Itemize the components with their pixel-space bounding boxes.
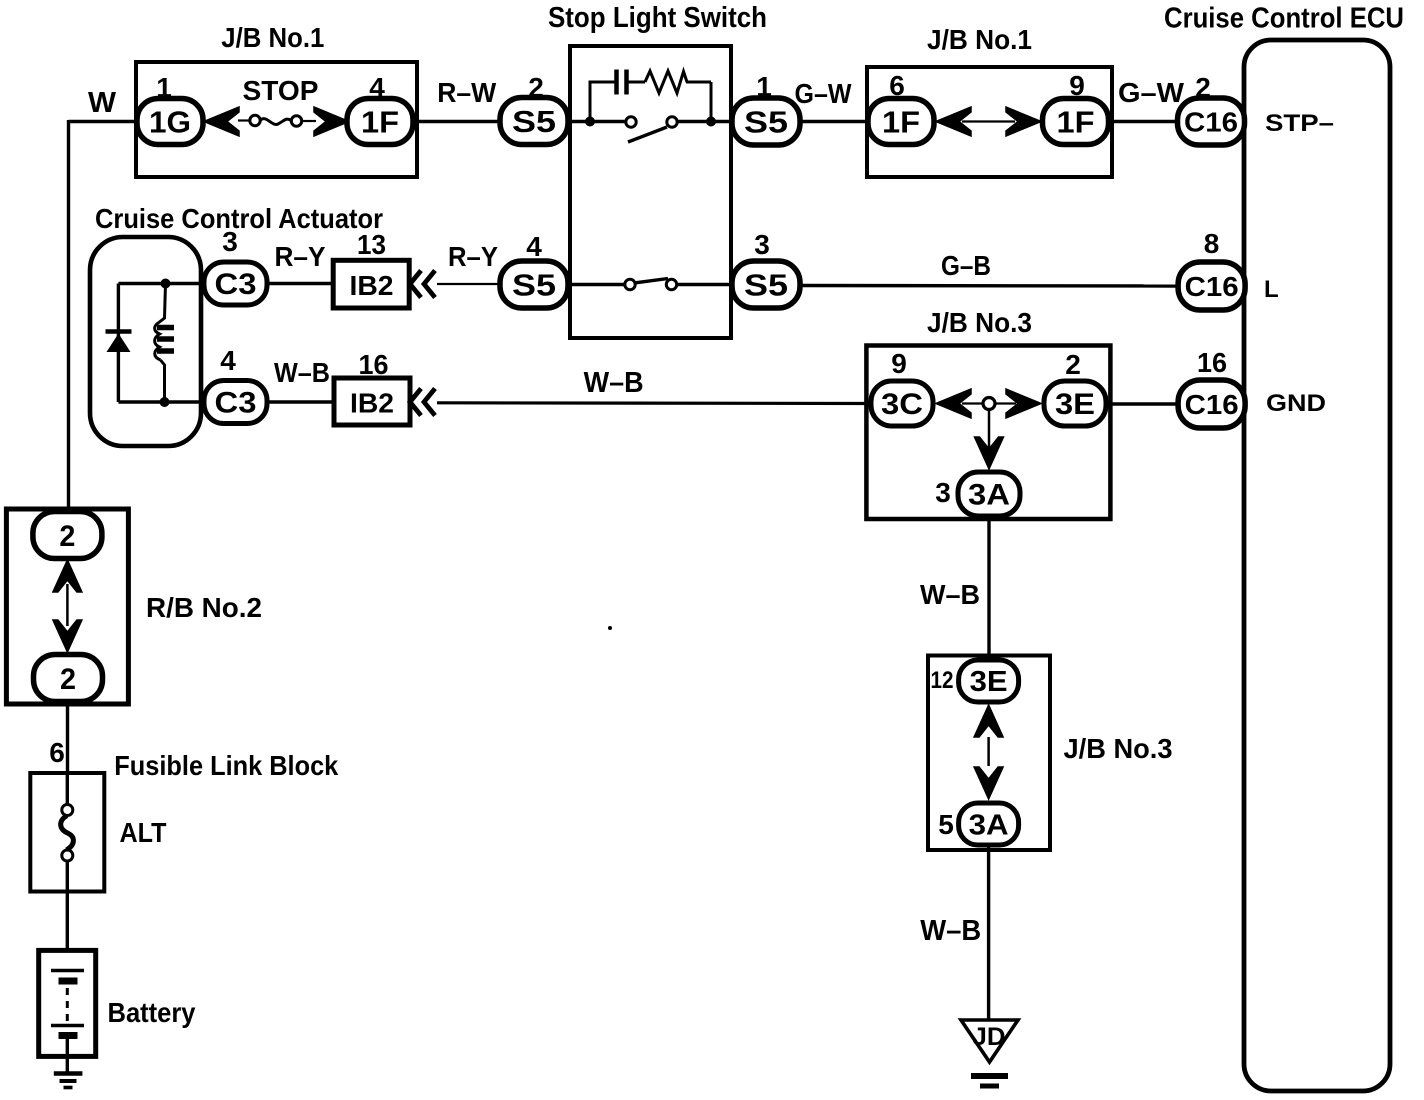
connector C16 pin2 (1178, 98, 1245, 145)
wire W-B long (437, 401, 870, 405)
svg-text:GND: GND (1266, 390, 1326, 417)
fuse element terminal right (291, 116, 301, 126)
connector 3E (1044, 381, 1106, 426)
link line from node (995, 402, 1016, 404)
fusible link lead bottom (66, 861, 69, 952)
svg-text:R/B No.2: R/B No.2 (146, 592, 262, 623)
connector 1G (137, 99, 203, 145)
fusible link terminal top (62, 805, 73, 816)
connector 1F (347, 99, 413, 145)
svg-text:J/B No.3: J/B No.3 (927, 307, 1032, 338)
svg-text:W: W (88, 87, 117, 119)
RC branch riser left (590, 82, 615, 122)
link line between arrows (962, 120, 1015, 122)
junction connector IB2 pin13 (333, 260, 409, 308)
ground point JD triangle (961, 1020, 1018, 1062)
fusible link element (61, 816, 74, 851)
connector 2 upper (33, 512, 102, 559)
svg-text:C16: C16 (1185, 389, 1239, 420)
wire G-W right (1108, 120, 1180, 123)
junction node right (706, 117, 716, 127)
capacitor plate left (614, 70, 619, 95)
svg-text:3E: 3E (1055, 388, 1095, 421)
svg-text:W–B: W–B (274, 357, 330, 388)
svg-text:2: 2 (60, 663, 76, 696)
ECU body (Cruise Control ECU) (1244, 40, 1390, 1091)
switch 1 contact left (626, 117, 636, 127)
svg-text:C3: C3 (215, 387, 257, 420)
svg-text:1F: 1F (361, 105, 399, 140)
arrow into 1F (314, 107, 349, 136)
svg-text:4: 4 (220, 345, 236, 376)
svg-text:3: 3 (222, 226, 238, 257)
svg-text:W–B: W–B (920, 579, 980, 610)
fuse element terminal left (250, 115, 260, 125)
junction connector IB2 pin16 (334, 378, 410, 425)
wire R-Y thin (437, 283, 503, 285)
RC branch top right (686, 81, 711, 84)
svg-text:C3: C3 (215, 268, 257, 301)
capacitor lead (629, 81, 646, 84)
svg-text:L: L (1264, 276, 1279, 303)
switch 2 blade (634, 279, 668, 284)
capacitor plate right (624, 70, 629, 95)
svg-text:JD: JD (973, 1023, 1006, 1051)
connector 1F pin9 (1043, 99, 1109, 145)
fusible link lead top (66, 775, 69, 805)
connector C3 pin4 (204, 381, 267, 424)
wire to fusible link (66, 702, 69, 774)
branch line down from node (988, 410, 991, 453)
svg-text:R–Y: R–Y (275, 241, 326, 272)
connector S5 pin1 (732, 98, 800, 145)
arrow toward 1F pin6 (936, 107, 971, 136)
actuator left branch (117, 284, 120, 403)
resistor zigzag (645, 71, 687, 93)
wire W-B short (267, 400, 334, 403)
wire G-B (800, 284, 1180, 288)
fuse element lead left (238, 119, 250, 121)
wire S5 to J/B No.1 (800, 120, 870, 123)
svg-text:Stop Light Switch: Stop Light Switch (548, 2, 767, 34)
svg-text:4: 4 (526, 231, 542, 262)
switch 2 contact right (666, 279, 676, 289)
fusible link block box (30, 773, 104, 892)
svg-text:1F: 1F (882, 105, 920, 140)
svg-text:3: 3 (935, 477, 951, 508)
RC branch riser right (710, 82, 713, 122)
svg-text:IB2: IB2 (350, 270, 394, 301)
actuator junction bottom (160, 397, 170, 407)
Cruise Control Actuator body (90, 237, 201, 446)
svg-text:G–W: G–W (795, 78, 853, 109)
connector 1F pin6 (868, 99, 934, 145)
arrow toward 3E (1006, 389, 1041, 418)
arrow up toward 3E (974, 705, 1003, 737)
junction-block J/B No.3 lower box (928, 656, 1050, 851)
junction-block J/B No.1 left box (136, 62, 417, 177)
svg-text:1G: 1G (149, 105, 191, 140)
svg-text:16: 16 (359, 349, 389, 380)
arrow into 1G (204, 107, 239, 136)
battery ground symbol (54, 1071, 83, 1076)
battery cell dashed link (66, 988, 69, 1021)
actuator top wire (118, 282, 205, 285)
svg-text:3A: 3A (969, 810, 1009, 842)
connector C16 pin16 (1178, 380, 1245, 428)
svg-text:Cruise Control ECU: Cruise Control ECU (1164, 3, 1404, 35)
wire 3E to C16 (1106, 402, 1180, 405)
connector C3 pin3 (204, 262, 267, 305)
svg-text:S5: S5 (744, 105, 788, 140)
connector 3C (871, 381, 933, 426)
relay-block R/B No.2 box (6, 509, 128, 704)
svg-text:Fusible Link Block: Fusible Link Block (114, 750, 338, 781)
battery plate short 2 (59, 1032, 78, 1039)
wire R-W (413, 120, 503, 123)
wire into switch (566, 120, 628, 123)
connector S5 pin3 (732, 261, 800, 308)
svg-text:13: 13 (357, 229, 386, 260)
wire S5 pin4 to switch (568, 283, 627, 286)
svg-text:2: 2 (59, 520, 75, 553)
diode triangle (107, 334, 131, 353)
wire R-Y (267, 282, 334, 285)
connector 3A (958, 472, 1020, 516)
junction node left (585, 117, 595, 127)
wire W horizontal (69, 120, 138, 123)
svg-text:1F: 1F (1057, 105, 1095, 140)
svg-text:5: 5 (938, 809, 954, 840)
svg-text:G–W: G–W (1118, 77, 1185, 108)
svg-text:S5: S5 (744, 268, 788, 303)
arrow up toward 2 upper (53, 560, 82, 592)
svg-text:Battery: Battery (108, 997, 196, 1028)
svg-text:16: 16 (1197, 347, 1227, 378)
svg-text:ALT: ALT (120, 817, 167, 848)
battery plate short 1 (59, 978, 78, 985)
svg-text:J/B No.3: J/B No.3 (1064, 733, 1173, 764)
chevron arrows into IB2 pin16 (410, 389, 421, 416)
coil winding (155, 322, 161, 360)
connector 3E lower (959, 660, 1019, 702)
svg-text:12: 12 (931, 667, 954, 694)
svg-text:R–Y: R–Y (448, 241, 498, 272)
svg-text:G–B: G–B (941, 250, 991, 281)
switch 1 blade (628, 127, 667, 142)
connector S5 pin2 (500, 98, 568, 145)
svg-text:J/B No.1: J/B No.1 (221, 22, 324, 53)
link line vertical (987, 737, 990, 766)
svg-text:STOP: STOP (243, 75, 319, 106)
arrow toward 3A (975, 437, 1004, 469)
arrow down toward 2 lower (53, 620, 82, 652)
svg-text:9: 9 (891, 348, 907, 379)
wire W vertical (67, 120, 70, 511)
svg-text:3C: 3C (881, 388, 923, 421)
svg-text:C16: C16 (1184, 107, 1238, 138)
arrow toward 3C (936, 389, 971, 418)
switch 1 contact right (667, 117, 677, 127)
Stop Light Switch body (570, 46, 731, 338)
svg-text:C16: C16 (1185, 271, 1239, 302)
coil top lead (160, 284, 166, 323)
junction-block J/B No.1 right box (867, 67, 1112, 177)
splice node circle (983, 398, 995, 410)
arrow toward 1F pin9 (1006, 107, 1041, 136)
svg-text:8: 8 (1204, 228, 1220, 259)
stray dot artifact (608, 626, 612, 630)
battery plate long 2 (51, 1024, 84, 1027)
svg-text:J/B No.1: J/B No.1 (927, 24, 1032, 55)
svg-text:S5: S5 (512, 104, 556, 139)
ground JD hatch (971, 1073, 1008, 1079)
svg-text:2: 2 (1065, 349, 1081, 380)
battery plate long 1 (51, 969, 84, 972)
svg-text:W–B: W–B (584, 367, 644, 399)
fuse element lead right (302, 120, 316, 122)
actuator bottom wire (118, 400, 205, 403)
connector 3A lower (959, 803, 1019, 845)
wire W-B to ground (987, 845, 990, 1021)
diode cathode bar (106, 329, 132, 334)
svg-text:STP–: STP– (1265, 110, 1334, 137)
wire switch2 out (677, 283, 734, 286)
link line vertical R/B (66, 584, 69, 626)
arrow down toward 3A (974, 767, 1003, 799)
connector S5 pin4 (500, 261, 568, 308)
svg-text:IB2: IB2 (350, 388, 394, 419)
link line to node (962, 402, 983, 404)
junction-block J/B No.3 middle box (866, 346, 1110, 520)
connector 2 lower (34, 655, 103, 702)
svg-text:3E: 3E (970, 666, 1008, 698)
svg-text:S5: S5 (512, 268, 556, 303)
wire W-B down from 3A (987, 516, 990, 657)
svg-text:3A: 3A (968, 479, 1010, 512)
switch 2 contact left (625, 279, 635, 289)
connector C16 pin8 (1178, 262, 1245, 310)
svg-text:6: 6 (49, 737, 65, 768)
wire switch1 to S5 (677, 120, 733, 123)
svg-text:R–W: R–W (437, 77, 497, 108)
battery lead to ground (66, 1039, 69, 1073)
fuse element wavy link (260, 119, 291, 125)
svg-text:W–B: W–B (920, 915, 981, 947)
actuator junction top (161, 279, 171, 289)
fusible link terminal bottom (62, 850, 73, 861)
svg-text:Cruise Control Actuator: Cruise Control Actuator (95, 203, 383, 234)
svg-text:3: 3 (754, 229, 770, 260)
chevron arrows into IB2 pin13 (410, 271, 421, 298)
battery box (39, 950, 96, 1056)
coil bottom lead (161, 360, 165, 402)
